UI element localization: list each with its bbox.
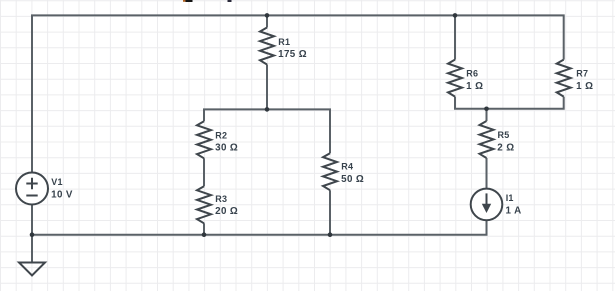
svg-text:R2: R2 (215, 130, 227, 140)
svg-text:1 Ω: 1 Ω (466, 81, 483, 92)
svg-text:V1: V1 (51, 177, 62, 187)
svg-text:30 Ω: 30 Ω (215, 143, 238, 154)
svg-text:R5: R5 (498, 130, 510, 140)
svg-text:2 Ω: 2 Ω (497, 142, 514, 153)
svg-text:20 Ω: 20 Ω (215, 206, 238, 217)
svg-text:I1: I1 (506, 193, 514, 203)
svg-text:1 A: 1 A (506, 206, 522, 217)
svg-text:10 V: 10 V (51, 190, 73, 201)
svg-text:R4: R4 (341, 162, 353, 172)
svg-text:1 Ω: 1 Ω (576, 81, 593, 92)
svg-text:R6: R6 (466, 69, 478, 79)
svg-text:50 Ω: 50 Ω (341, 174, 364, 185)
svg-text:R1: R1 (278, 37, 290, 47)
svg-text:175 Ω: 175 Ω (278, 49, 307, 60)
svg-text:R3: R3 (215, 194, 227, 204)
svg-text:R7: R7 (576, 69, 588, 79)
